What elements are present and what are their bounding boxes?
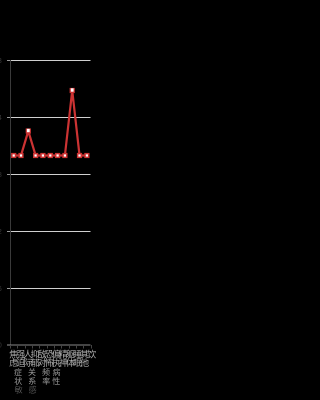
svg-text:频: 频 [42, 367, 50, 377]
x axis ticks [11, 345, 92, 349]
x axis line [10, 344, 91, 346]
svg-text:0.6: 0.6 [0, 286, 2, 293]
svg-text:0: 0 [0, 343, 2, 350]
svg-text:状: 状 [14, 376, 22, 386]
y axis ticks [7, 61, 10, 346]
series line [14, 91, 87, 156]
svg-text:系: 系 [28, 376, 36, 386]
gridlines [10, 60, 91, 62]
svg-text:病: 病 [53, 367, 61, 377]
svg-text:率: 率 [42, 376, 50, 386]
svg-text:1.2: 1.2 [0, 229, 2, 236]
line chart [0, 0, 100, 400]
svg-text:1.8: 1.8 [0, 172, 2, 179]
svg-text:关: 关 [28, 367, 36, 377]
y axis line [10, 60, 12, 345]
svg-text:他: 他 [80, 357, 89, 368]
svg-text:2.4: 2.4 [0, 115, 2, 122]
svg-text:症: 症 [14, 367, 22, 377]
svg-text:3: 3 [0, 58, 2, 65]
series markers [11, 88, 89, 158]
svg-text:敏: 敏 [15, 385, 23, 395]
svg-text:感: 感 [29, 385, 37, 395]
svg-text:性: 性 [52, 376, 60, 386]
x axis labels [9, 348, 96, 394]
y axis labels [0, 58, 2, 350]
